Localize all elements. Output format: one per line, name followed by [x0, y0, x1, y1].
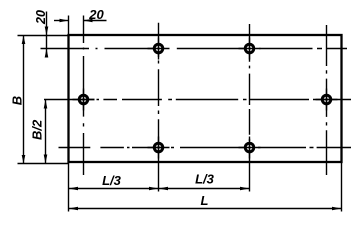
hole H1 top-left inner with crosshair: [148, 38, 170, 60]
dimension L (bottom overall length): [69, 193, 342, 210]
hole H3 middle-left with crosshair: [73, 89, 95, 111]
extension line top edge leftward: [18, 35, 69, 37]
svg-text:L/3: L/3: [195, 171, 215, 186]
centerline second inner hole column (vertical): [249, 24, 251, 192]
svg-text:L/3: L/3: [102, 173, 122, 188]
centerline first inner hole column (vertical): [158, 23, 160, 192]
extension line right edge downward: [341, 162, 343, 212]
plate outline: [69, 35, 342, 162]
extension line left edge downward: [68, 162, 70, 212]
hole H6 bottom-right inner with crosshair: [239, 137, 261, 159]
dimension L/3 second (bottom): [159, 171, 250, 190]
svg-text:L: L: [201, 193, 209, 208]
hole H2 top-right inner with crosshair: [239, 38, 261, 60]
svg-text:20: 20: [88, 7, 104, 22]
svg-text:20: 20: [34, 10, 48, 25]
centerline top hole row (horizontal): [41, 48, 348, 50]
extension line left edge upward: [68, 16, 70, 35]
hole H4 middle-right with crosshair: [316, 89, 338, 111]
dimension B (left overall height): [10, 36, 26, 164]
extension line bottom edge leftward: [18, 163, 69, 165]
svg-text:B: B: [10, 96, 25, 105]
centerline middle hole row (horizontal): [44, 99, 351, 101]
dimension 20 horizontal (top): [54, 7, 107, 22]
dimension B/2 (left half height): [29, 100, 47, 164]
dimension 20 vertical (top-left): [34, 10, 49, 57]
centerline right hole column (vertical): [326, 25, 328, 175]
hole H5 bottom-left inner with crosshair: [148, 137, 170, 159]
dimension L/3 first (bottom): [69, 173, 159, 190]
centerline bottom hole row (horizontal): [59, 147, 352, 149]
centerline left hole column (vertical): [83, 16, 85, 176]
svg-text:B/2: B/2: [29, 119, 44, 140]
